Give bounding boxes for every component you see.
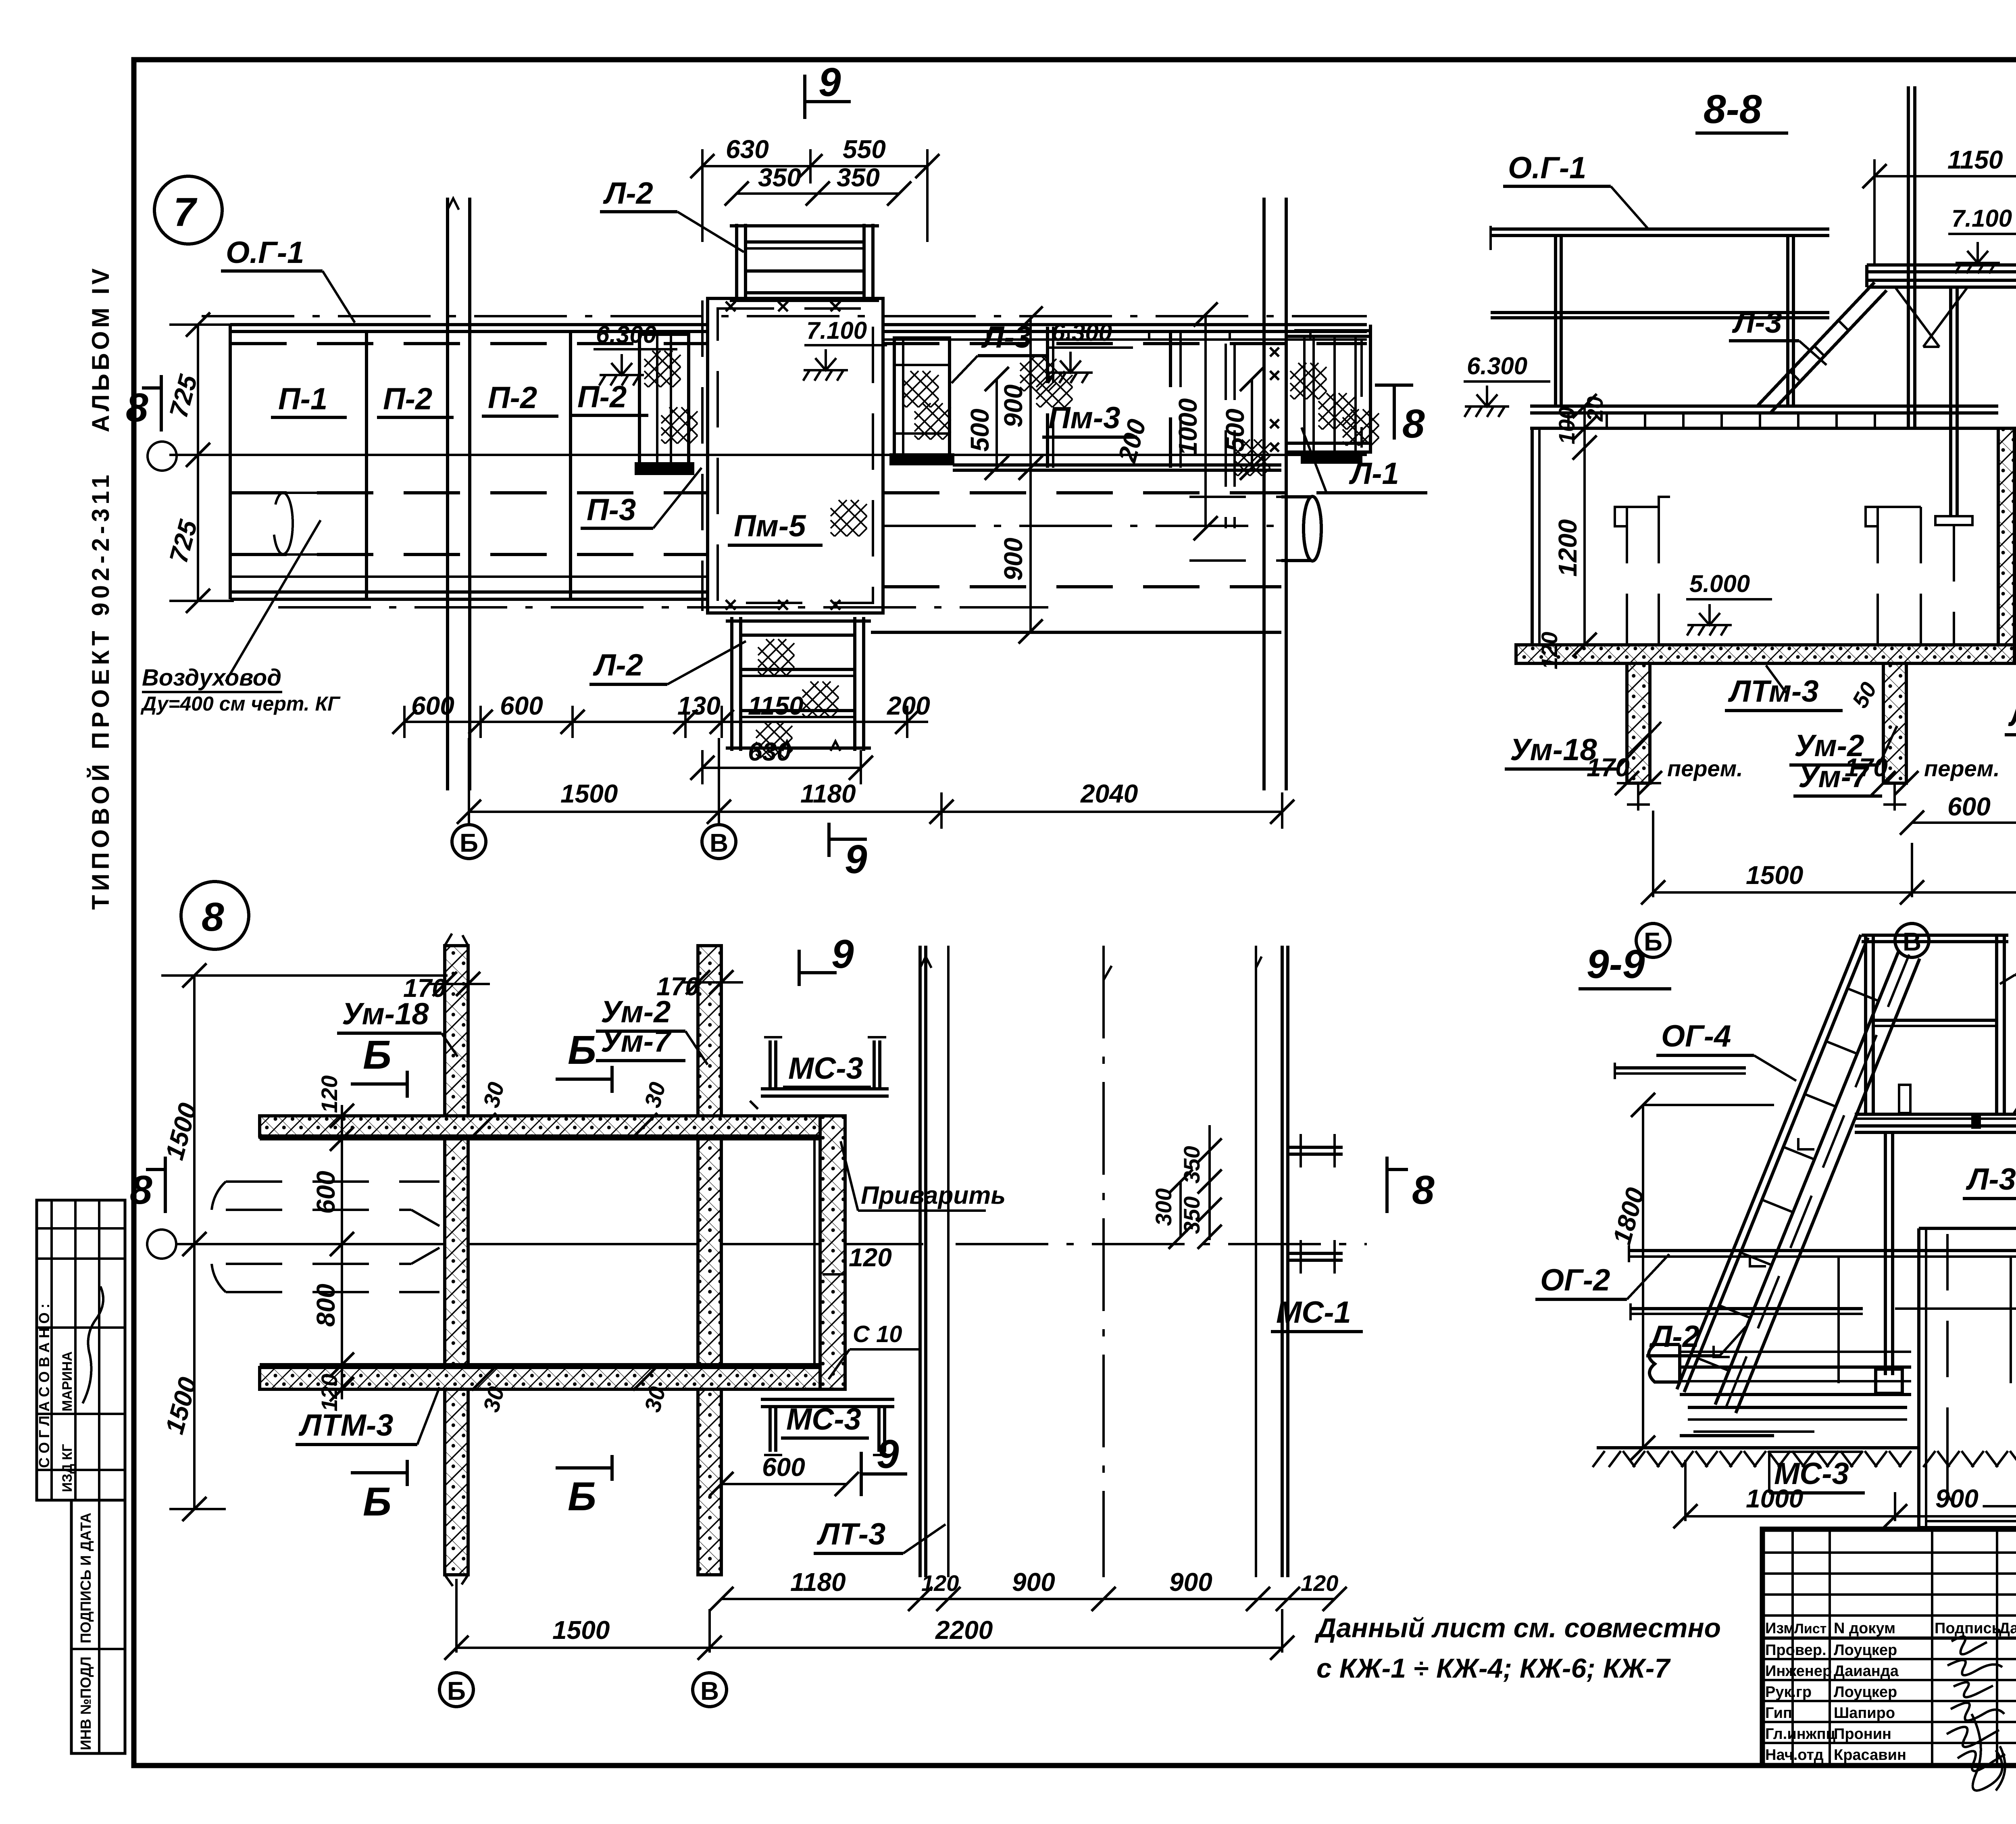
svg-text:Л-2: Л-2	[593, 648, 643, 682]
center box Пм-5	[708, 298, 883, 613]
svg-text:Б: Б	[568, 1028, 596, 1073]
svg-text:8: 8	[202, 894, 224, 940]
left rail posts	[1556, 236, 1793, 406]
horizontal rails upper section9	[1629, 1245, 2016, 1262]
svg-text:1000: 1000	[1746, 1484, 1803, 1513]
dim 600 center	[1900, 792, 2016, 839]
svg-text:ТИПОВОЙ ПРОЕКТ 902-2-311: ТИПОВОЙ ПРОЕКТ 902-2-311	[87, 471, 114, 910]
channel inner rectangle	[260, 1116, 820, 1389]
dashed inlet pipe left plan8	[212, 1182, 439, 1292]
svg-text:5.000: 5.000	[1689, 570, 1750, 597]
svg-text:П-2: П-2	[488, 381, 537, 415]
svg-text:900: 900	[999, 538, 1028, 581]
label П-3	[581, 468, 702, 528]
svg-text:ОГ-4: ОГ-4	[1661, 1019, 1731, 1053]
svg-text:Б: Б	[460, 828, 478, 857]
svg-text:Ум-7: Ум-7	[601, 1024, 672, 1059]
left mid rail	[1491, 313, 1829, 318]
label О.Г-1	[221, 236, 355, 323]
svg-text:Приварить: Приварить	[861, 1182, 1006, 1209]
svg-text:550: 550	[843, 135, 886, 164]
ladder Л-2 top	[730, 224, 879, 300]
svg-text:120: 120	[1301, 1570, 1338, 1596]
wall Ум-2/Ум-7 vertical hatched	[698, 946, 721, 1575]
svg-text:ЛТМ-3: ЛТМ-3	[298, 1408, 393, 1443]
left tank walls section	[1532, 428, 2014, 645]
section title 9-9	[1579, 942, 1671, 989]
svg-text:130: 130	[677, 691, 721, 720]
diagonal braces under platform	[1895, 287, 1968, 347]
label ОГ-4 left	[1656, 1019, 1796, 1081]
svg-text:7: 7	[173, 190, 198, 235]
svg-text:6.300: 6.300	[1052, 319, 1112, 346]
inner posts below platform	[1876, 1132, 2016, 1393]
dims 350/350/300 right plan8	[1151, 1125, 1222, 1249]
svg-text:120: 120	[921, 1570, 959, 1596]
svg-text:20: 20	[1582, 396, 1608, 422]
bottom dim row plan8 1180/120/900/900/120	[709, 1568, 1347, 1611]
dim 120/600/800/120 rotated left	[311, 1076, 354, 1411]
svg-text:900: 900	[1935, 1484, 1979, 1513]
note text bottom center	[1314, 1613, 1721, 1684]
svg-text:Нач.отд: Нач.отд	[1765, 1747, 1824, 1764]
svg-text:1150: 1150	[1947, 145, 2003, 174]
svg-text:6.300: 6.300	[1467, 352, 1527, 379]
svg-text:ИНВ №ПОДЛ: ИНВ №ПОДЛ	[77, 1657, 94, 1750]
svg-text:120: 120	[1537, 632, 1562, 669]
ladder Л-3 right of box	[891, 338, 953, 464]
svg-text:1150: 1150	[748, 691, 804, 720]
svg-text:600: 600	[411, 691, 454, 720]
left vertical dimension 725/725	[164, 313, 234, 613]
label Пм-3	[1042, 401, 1137, 437]
dimension 630/550 above ladder	[690, 135, 939, 242]
svg-text:Воздуховод: Воздуховод	[142, 665, 281, 691]
panel dividers	[367, 331, 571, 599]
svg-text:600: 600	[1947, 792, 1991, 821]
label О.Г-1 left	[1503, 151, 1649, 230]
elevation 7.100 platform	[1948, 205, 2016, 273]
title block outer	[1762, 1529, 2016, 1766]
svg-text:170: 170	[1587, 753, 1630, 782]
panel label П-2 second	[482, 381, 558, 416]
svg-text:350: 350	[837, 163, 880, 192]
svg-text:Инженер: Инженер	[1765, 1663, 1832, 1680]
axis circle В plan7	[702, 825, 736, 859]
svg-text:Б: Б	[447, 1676, 466, 1705]
dim 170 перем left	[1587, 753, 1743, 795]
axis circle В section 8-8	[1895, 923, 1929, 957]
dashed verticals left of box	[701, 300, 704, 611]
svg-text:Ум-18: Ум-18	[342, 997, 429, 1031]
big vertical channel ЛТ-3	[920, 946, 1288, 1577]
svg-text:1500: 1500	[552, 1616, 610, 1645]
air duct dashed pipe	[273, 493, 363, 554]
dashdot below band	[278, 606, 1048, 609]
svg-text:900: 900	[999, 384, 1028, 427]
column Ум-2/Ум-7 below floor	[1883, 663, 1906, 811]
section mark 9 bottom	[829, 823, 867, 882]
channel bottom wall hatched	[260, 1367, 820, 1389]
dashed verticals right band	[1225, 344, 1227, 528]
axis horizontal line	[148, 442, 1367, 471]
wall Ум-18 vertical hatched	[445, 934, 468, 1586]
svg-text:Л-2: Л-2	[1649, 1320, 1699, 1354]
left margin vertical text: Типовой проект 902-2-311	[87, 471, 114, 910]
inlet box П-3 (left of center box)	[636, 334, 693, 473]
МС-1 brackets right	[1288, 1134, 1343, 1274]
svg-text:7.100: 7.100	[806, 317, 867, 344]
svg-text:600: 600	[762, 1453, 805, 1482]
svg-text:1180: 1180	[800, 779, 856, 808]
МС-3 bracket bottom	[761, 1399, 894, 1455]
svg-text:Лист: Лист	[1794, 1621, 1826, 1636]
svg-text:Дата: Дата	[1999, 1620, 2016, 1637]
panel label П-1	[271, 382, 347, 417]
axis horizontal line plan8	[147, 1230, 1367, 1259]
svg-text:Гл.инжпц: Гл.инжпц	[1765, 1726, 1836, 1743]
label Л-3 section9	[1963, 1162, 2016, 1199]
section mark 9 top plan8	[799, 932, 854, 986]
label 170 top right	[656, 970, 743, 1001]
label С10	[829, 1321, 921, 1379]
svg-text:С О Г Л А С О В А Н О :: С О Г Л А С О В А Н О :	[36, 1303, 52, 1468]
svg-text:Ду=400 см черт. КГ: Ду=400 см черт. КГ	[140, 692, 341, 715]
svg-text:АЛЬБОМ IV: АЛЬБОМ IV	[87, 265, 114, 432]
section mark 9 bottom plan8	[861, 1432, 907, 1496]
svg-text:9: 9	[845, 837, 867, 882]
label Л-2 bottom	[589, 641, 746, 684]
axis circle Б plan7	[452, 825, 486, 859]
svg-text:Пм-3: Пм-3	[1048, 401, 1120, 435]
section mark Б bottom-left	[351, 1460, 407, 1524]
svg-text:7.100: 7.100	[1951, 205, 2012, 232]
column pair right	[1264, 198, 1286, 790]
section mark Б top-left	[351, 1032, 407, 1098]
svg-text:6.300: 6.300	[596, 321, 656, 348]
label ЛТМ-3	[296, 1387, 439, 1445]
label 120 wall	[823, 1243, 892, 1274]
svg-text:350: 350	[1179, 1197, 1204, 1234]
svg-text:170: 170	[1845, 753, 1888, 782]
svg-text:Рук.гр: Рук.гр	[1765, 1684, 1812, 1701]
svg-text:800: 800	[311, 1284, 340, 1327]
svg-text:9-9: 9-9	[1587, 942, 1645, 987]
label Л-1	[1302, 427, 1427, 493]
channel right wall hatched	[820, 1116, 845, 1389]
label Ум-18	[1505, 722, 1661, 769]
guard rail dashdot above band	[202, 315, 1367, 317]
left approval side table (Согласовано)	[36, 1200, 125, 1500]
label ОГ-2	[1535, 1254, 1669, 1299]
svg-text:1500: 1500	[1746, 861, 1803, 890]
dimension 350/350	[725, 163, 911, 206]
distribution pipe 1 dashed	[1615, 497, 1670, 645]
svg-text:Пронин: Пронин	[1834, 1726, 1891, 1743]
label ЛТм-3	[1725, 665, 1882, 712]
axis circle В plan8	[693, 1673, 727, 1707]
svg-text:N докум: N докум	[1834, 1620, 1895, 1637]
svg-text:перем.: перем.	[1924, 756, 2000, 781]
column pair left	[448, 198, 470, 790]
elevation 7.100 center	[803, 317, 887, 381]
svg-text:1000: 1000	[1173, 398, 1202, 456]
tower guard rail ОГ-1	[1862, 935, 2008, 1114]
svg-text:Б: Б	[1644, 927, 1662, 956]
svg-text:ОГ-2: ОГ-2	[1540, 1263, 1610, 1297]
svg-text:МАРИНА: МАРИНА	[60, 1351, 75, 1411]
section mark 9 top	[805, 60, 851, 119]
svg-text:О.Г-1: О.Г-1	[226, 236, 304, 270]
left margin vertical text: Альбом IV	[87, 265, 114, 432]
bottom dim row 600/600/130/1150/200	[392, 691, 930, 738]
svg-text:С 10: С 10	[853, 1321, 902, 1347]
distribution pipe 2 with column	[1866, 287, 1972, 645]
right end bracket structure	[1270, 331, 1370, 462]
svg-text:МС-1: МС-1	[1276, 1295, 1351, 1330]
svg-text:1500: 1500	[560, 779, 618, 808]
svg-text:630: 630	[748, 737, 791, 766]
svg-text:9: 9	[818, 60, 841, 105]
label Ум-18 plan8	[337, 997, 458, 1057]
left lower side table (Подпись и дата / Инв N подл)	[71, 1500, 125, 1753]
label Л-2 top	[600, 176, 744, 252]
label ЛТ-3 plan8	[814, 1517, 946, 1553]
elevation 5.000 floor	[1686, 570, 1772, 636]
svg-text:8: 8	[1412, 1167, 1435, 1213]
label 170 top left	[403, 972, 490, 1003]
svg-text:В: В	[700, 1676, 719, 1705]
svg-text:Л-1: Л-1	[1349, 457, 1399, 491]
section title 8-8	[1695, 87, 1788, 133]
label Приварить	[841, 1141, 1006, 1211]
bottom dim row 1500/1180/2040	[457, 738, 1294, 829]
svg-text:8: 8	[130, 1167, 152, 1213]
svg-text:Гип: Гип	[1765, 1705, 1792, 1722]
svg-text:900: 900	[1012, 1568, 1055, 1597]
label МС-3 bottom	[781, 1402, 869, 1438]
stair Л-3 left slope	[1758, 282, 1887, 413]
svg-text:2040: 2040	[1080, 779, 1138, 808]
bottom dims 1000/900/900/1000	[1673, 1460, 2016, 1528]
svg-text:Б: Б	[363, 1479, 392, 1524]
vertical dim 1500/1500 far left	[160, 963, 448, 1521]
svg-text:9: 9	[831, 932, 854, 977]
elevation 6.300 left	[594, 321, 677, 386]
svg-text:120: 120	[317, 1076, 342, 1113]
label МС-3 top	[783, 1051, 871, 1087]
svg-text:Пм-5: Пм-5	[734, 509, 806, 543]
ground line and hatch	[1593, 1448, 2016, 1467]
svg-text:Провер.: Провер.	[1765, 1642, 1826, 1659]
svg-text:Лоуцкер: Лоуцкер	[1834, 1684, 1897, 1701]
svg-text:с КЖ-1 ÷ КЖ-4; КЖ-6; КЖ-7: с КЖ-1 ÷ КЖ-4; КЖ-6; КЖ-7	[1316, 1653, 1671, 1684]
axis circle Б section 8-8	[1636, 923, 1670, 957]
column Ум-18 below floor	[1627, 663, 1650, 811]
section mark 8 left plan8	[130, 1157, 165, 1213]
svg-text:1200: 1200	[1553, 519, 1582, 577]
label ЛТ-3	[2005, 661, 2016, 735]
ladder Л-2 bottom	[726, 617, 871, 751]
band right part outline	[871, 325, 1370, 632]
section mark 8 right	[1375, 385, 1425, 446]
section mark Б top-mid	[556, 1028, 612, 1093]
vertical dim 1000	[1173, 302, 1218, 540]
left guard rail О.Г-1 top rail	[1491, 226, 1829, 250]
panel label П-2 third	[572, 380, 648, 415]
dim 170 перем right	[1845, 753, 2000, 795]
base platform МС-3 left	[1649, 1345, 1911, 1436]
svg-text:В: В	[710, 828, 728, 857]
svg-text:перем.: перем.	[1667, 756, 1743, 781]
svg-text:Лоуцкер: Лоуцкер	[1834, 1642, 1897, 1659]
x marks on box edges	[726, 302, 840, 610]
svg-text:8: 8	[126, 385, 148, 430]
section mark 8 right plan8	[1387, 1157, 1435, 1213]
svg-text:8: 8	[1402, 401, 1425, 446]
label ОГ-1 section9	[2000, 938, 2016, 984]
svg-text:Шапиро: Шапиро	[1834, 1705, 1895, 1722]
dim 1800 left section9	[1607, 1093, 1774, 1460]
axis circle Б plan8	[439, 1673, 473, 1707]
label Ум-2 Ум-7 plan8	[596, 995, 708, 1065]
svg-text:900: 900	[1169, 1568, 1212, 1597]
dim 1150/200 top center	[1862, 145, 2016, 266]
label Ум-2 Ум-7	[1789, 726, 1897, 796]
left outside rails mid level section9	[1615, 1063, 1746, 1079]
channel top wall hatched	[260, 1116, 820, 1136]
section mark Б bottom-mid	[556, 1455, 612, 1519]
svg-text:Красавин: Красавин	[1834, 1747, 1906, 1764]
left slope stair ОГ-4	[1677, 935, 1920, 1413]
svg-text:200: 200	[887, 691, 930, 720]
label МС-1 plan8	[1271, 1295, 1363, 1332]
label vozduhovod	[140, 520, 341, 715]
svg-text:П-3: П-3	[587, 493, 636, 527]
label Л-3	[952, 320, 1048, 383]
svg-text:Подпись: Подпись	[1935, 1620, 2001, 1637]
svg-text:ИЗД КГ: ИЗД КГ	[60, 1444, 75, 1492]
tank below section9	[1919, 1228, 2016, 1528]
МС-3 bracket top	[750, 1037, 889, 1109]
bottom dims 1500/2200 section 8-8	[1641, 811, 2016, 905]
small posts between rails	[1839, 1257, 2016, 1383]
vertical dim 900 lower	[999, 468, 1043, 644]
elevation 6.300 right	[1048, 319, 1133, 383]
deck over left tank	[1530, 406, 1998, 428]
dim 30 marks near walls	[472, 1080, 671, 1415]
title block signature table	[1762, 1529, 2016, 1791]
label Л-3 left	[1729, 305, 1826, 365]
band left part outline	[230, 325, 708, 599]
svg-text:ЛТм-3: ЛТм-3	[1728, 674, 1819, 709]
central platform beams	[1867, 265, 2016, 287]
hanging ladder below platform	[1998, 287, 2016, 554]
svg-text:Ум-18: Ум-18	[1510, 733, 1597, 767]
svg-text:Изм: Изм	[1765, 1620, 1795, 1637]
svg-text:Б: Б	[363, 1032, 392, 1078]
dim 600 plan8	[709, 1453, 859, 1496]
svg-text:120: 120	[849, 1243, 892, 1272]
platform Пм-5 beams section9	[1855, 1114, 2016, 1132]
vertical dim 900 upper right band	[999, 306, 1043, 480]
svg-text:630: 630	[726, 135, 769, 164]
svg-text:1180: 1180	[790, 1568, 846, 1597]
svg-text:Л-2: Л-2	[603, 176, 653, 211]
svg-text:Даианда: Даианда	[1834, 1663, 1899, 1680]
svg-text:Л-3: Л-3	[1732, 305, 1782, 340]
dashed partition verticals right band	[1046, 327, 1049, 468]
vertical dim 200	[1112, 416, 1152, 466]
label Пм-5 section9	[2014, 1029, 2016, 1113]
svg-text:Л-3: Л-3	[1966, 1162, 2016, 1197]
svg-text:ЛТ-3: ЛТ-3	[816, 1517, 885, 1551]
svg-text:ПОДПИСЬ И ДАТА: ПОДПИСЬ И ДАТА	[77, 1513, 94, 1643]
left dims 100/1200	[1537, 394, 1608, 669]
svg-text:Б: Б	[568, 1474, 596, 1519]
svg-text:600: 600	[500, 691, 543, 720]
svg-text:МС-3: МС-3	[786, 1402, 861, 1436]
svg-text:600: 600	[311, 1171, 340, 1214]
svg-text:8-8: 8-8	[1704, 87, 1762, 132]
horizontal rails lower section9	[1631, 1303, 2016, 1320]
svg-text:100: 100	[1554, 407, 1579, 444]
panel label П-2	[377, 382, 454, 417]
svg-text:350: 350	[758, 163, 801, 192]
node marker circle 7	[154, 176, 222, 244]
dim 630 lower	[690, 737, 873, 784]
svg-text:300: 300	[1151, 1188, 1176, 1226]
node marker circle 8	[181, 882, 249, 949]
svg-text:500: 500	[965, 409, 994, 452]
svg-text:О.Г-1: О.Г-1	[1508, 151, 1586, 185]
svg-text:П-1: П-1	[278, 382, 327, 416]
bottom dim row plan8 1500/2200	[444, 1579, 1294, 1660]
tank floor slab ЛТм-3	[1516, 645, 2014, 663]
svg-text:Данный лист см. совместно: Данный лист см. совместно	[1314, 1613, 1721, 1643]
vertical dim 500 right	[1220, 367, 1264, 480]
svg-text:П-2: П-2	[577, 380, 627, 414]
vertical dim 500	[965, 367, 1009, 480]
svg-text:МС-3: МС-3	[788, 1051, 863, 1086]
left slope rungs	[1698, 988, 1879, 1371]
label Пм-5	[728, 509, 823, 545]
svg-text:2200: 2200	[935, 1616, 993, 1645]
label МС-3 left section9	[1769, 1452, 1865, 1493]
section mark 8 left	[126, 375, 161, 432]
svg-text:П-2: П-2	[383, 382, 432, 416]
air duct pipe right dashed	[1189, 497, 1281, 561]
elevation 6.300 far left	[1464, 352, 1550, 417]
label Л-2 left section9	[1646, 1320, 1746, 1356]
center tall columns	[1908, 86, 2016, 428]
